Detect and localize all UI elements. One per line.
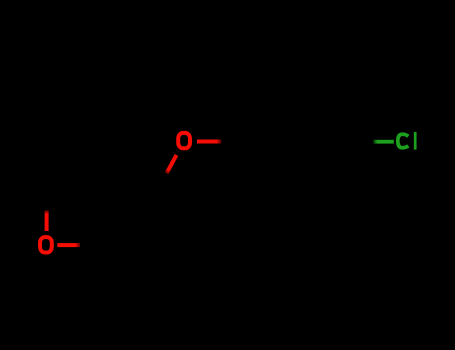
bond CH2-C3(oxetane) xyxy=(103,188,157,191)
bond C4-Cl black half xyxy=(353,140,373,144)
bond O(oxetane)-C2 red half (vertical) xyxy=(45,210,49,231)
atom O ether xyxy=(178,133,190,148)
bond O(ether)-CH2 red half xyxy=(167,155,177,173)
bond O(ether)-C1 red half xyxy=(197,140,221,144)
bond O(ether)-CH2 black half xyxy=(157,174,167,191)
oxetane ring carbon bonds (black) xyxy=(46,188,103,245)
bond O(oxetane)-C4 red half (horizontal) xyxy=(57,243,80,247)
atom Cl : letter C xyxy=(398,134,409,148)
bond O(ether)-C1 black half xyxy=(221,140,246,144)
atom O oxetane xyxy=(40,237,52,252)
atom Cl : letter l xyxy=(414,132,417,150)
benzene ring (carbon bonds, black on black) xyxy=(246,95,353,187)
bond C4-Cl green half xyxy=(373,140,393,144)
